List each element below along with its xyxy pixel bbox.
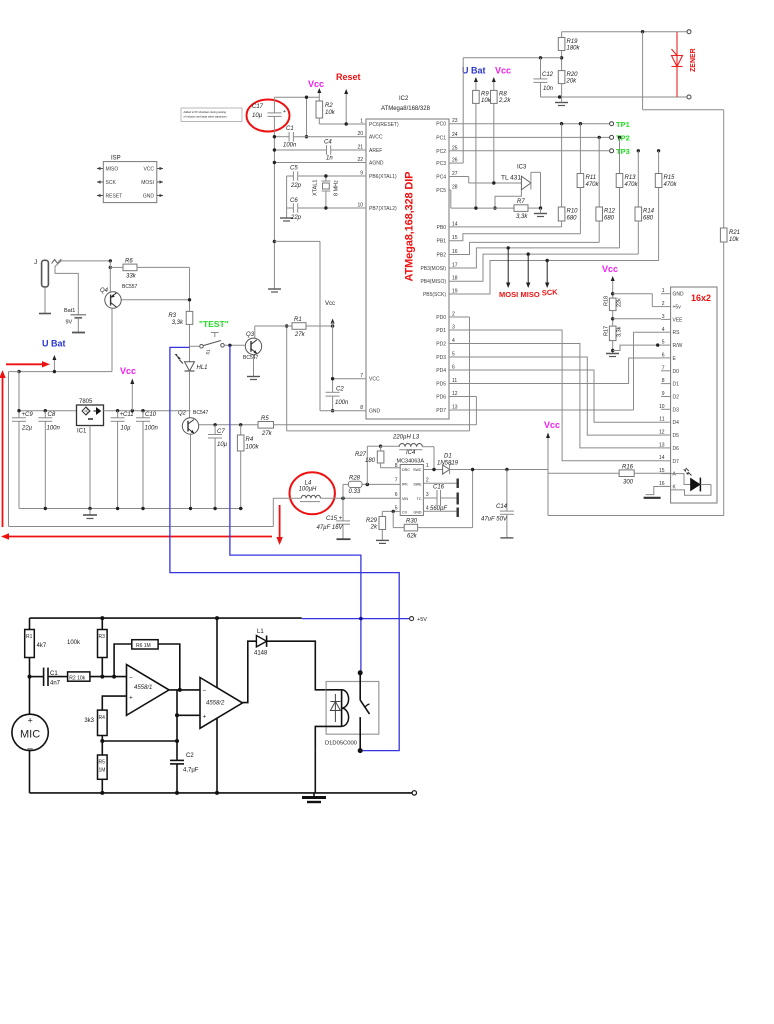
svg-text:22µ: 22µ	[21, 426, 33, 432]
svg-text:CII: CII	[402, 510, 407, 514]
svg-text:R7: R7	[517, 199, 525, 205]
svg-text:100n: 100n	[145, 426, 159, 432]
svg-text:DRC: DRC	[402, 468, 410, 472]
svg-text:680: 680	[643, 216, 654, 222]
svg-text:C6: C6	[290, 198, 298, 204]
svg-text:R2 10k: R2 10k	[69, 675, 85, 681]
svg-text:R18: R18	[604, 296, 610, 306]
svg-text:PD4: PD4	[436, 368, 446, 374]
svg-text:IC4: IC4	[406, 450, 416, 456]
svg-text:+: +	[283, 109, 286, 115]
svg-text:7: 7	[395, 477, 398, 483]
svg-text:ATMega8/168/328: ATMega8/168/328	[381, 106, 431, 112]
svg-text:10µ: 10µ	[252, 113, 263, 119]
svg-text:4k7: 4k7	[37, 643, 47, 649]
svg-text:PD2: PD2	[436, 342, 446, 348]
svg-text:0.33: 0.33	[349, 489, 361, 495]
svg-text:PC6(RESET): PC6(RESET)	[369, 122, 399, 128]
svg-text:100n: 100n	[283, 143, 297, 149]
svg-text:R3: R3	[168, 313, 176, 319]
svg-text:Bat1: Bat1	[64, 308, 75, 314]
svg-text:C17: C17	[252, 104, 264, 110]
svg-text:R/W: R/W	[673, 343, 683, 349]
svg-text:D1: D1	[673, 382, 680, 388]
svg-text:180k: 180k	[567, 46, 581, 52]
svg-text:3,3k: 3,3k	[617, 326, 623, 337]
svg-text:−: −	[129, 674, 133, 681]
svg-text:IPK: IPK	[402, 482, 408, 486]
svg-text:Q3: Q3	[246, 332, 255, 338]
svg-text:AGND: AGND	[369, 161, 384, 167]
svg-text:C15 +: C15 +	[326, 516, 343, 522]
svg-text:R11: R11	[586, 175, 597, 181]
svg-text:GND: GND	[673, 292, 685, 298]
svg-text:RESET: RESET	[106, 194, 123, 200]
svg-text:10µ: 10µ	[121, 426, 132, 432]
svg-text:IC1: IC1	[77, 429, 87, 435]
svg-text:20k: 20k	[566, 79, 578, 85]
svg-text:+: +	[203, 714, 207, 721]
svg-text:62k: 62k	[407, 534, 418, 540]
svg-text:8: 8	[395, 463, 398, 469]
svg-text:VIN: VIN	[402, 497, 408, 501]
svg-text:680: 680	[567, 216, 578, 222]
svg-text:R4: R4	[246, 437, 254, 443]
svg-text:PB5(SCK): PB5(SCK)	[423, 292, 446, 298]
svg-text:of inductor and large value ca: of inductor and large value capacitors	[184, 115, 228, 119]
svg-text:470k: 470k	[625, 182, 639, 188]
svg-text:R1: R1	[294, 317, 302, 323]
svg-text:R8: R8	[499, 92, 507, 98]
svg-text:300: 300	[623, 480, 634, 486]
svg-text:R4: R4	[99, 715, 106, 721]
svg-text:PD1: PD1	[436, 328, 446, 334]
svg-text:+C9: +C9	[22, 412, 34, 418]
svg-text:C4: C4	[324, 140, 332, 146]
svg-text:TP3: TP3	[616, 147, 630, 156]
svg-text:4148: 4148	[254, 651, 268, 657]
svg-text:Q2: Q2	[178, 411, 187, 417]
svg-text:D3: D3	[673, 407, 680, 413]
svg-text:SWE: SWE	[413, 482, 422, 486]
svg-text:ISP: ISP	[111, 156, 121, 162]
svg-text:VEE: VEE	[673, 317, 684, 323]
svg-text:2: 2	[662, 301, 665, 307]
svg-text:BC547: BC547	[243, 355, 259, 361]
svg-text:Vcc: Vcc	[308, 79, 324, 89]
svg-text:VCC: VCC	[143, 167, 154, 173]
svg-text:R30: R30	[406, 519, 418, 525]
svg-text:220µH L3: 220µH L3	[392, 435, 420, 441]
svg-text:D1: D1	[444, 454, 452, 460]
svg-text:R14: R14	[643, 209, 655, 215]
svg-text:4558/2: 4558/2	[206, 701, 225, 707]
svg-text:+C11: +C11	[120, 412, 134, 418]
svg-text:PC1: PC1	[436, 135, 446, 141]
svg-text:Vcc: Vcc	[602, 264, 618, 274]
svg-text:R10: R10	[567, 209, 579, 215]
svg-text:TC: TC	[417, 497, 422, 501]
svg-text:10k: 10k	[729, 237, 740, 243]
svg-text:D6: D6	[673, 446, 680, 452]
svg-text:Added to 5V shutdown during te: Added to 5V shutdown during testing	[184, 110, 227, 114]
svg-text:PB1: PB1	[437, 239, 447, 245]
svg-text:R6 1M: R6 1M	[136, 643, 151, 649]
svg-text:C5: C5	[290, 166, 298, 172]
svg-text:5: 5	[395, 505, 398, 511]
svg-text:PC2: PC2	[436, 149, 446, 155]
svg-text:MIC: MIC	[20, 729, 40, 741]
svg-text:R28: R28	[349, 476, 361, 482]
svg-text:6: 6	[662, 352, 665, 358]
svg-text:PB7(XTAL2): PB7(XTAL2)	[369, 206, 397, 212]
svg-text:1n: 1n	[326, 156, 333, 162]
svg-text:4: 4	[426, 505, 429, 511]
svg-text:4: 4	[662, 327, 665, 333]
svg-text:C2: C2	[336, 387, 344, 393]
svg-text:U Bat: U Bat	[42, 339, 66, 349]
svg-text:PD6: PD6	[436, 395, 446, 401]
svg-text:R21: R21	[729, 230, 740, 236]
svg-text:4n7: 4n7	[50, 681, 61, 687]
svg-text:47uF 50V: 47uF 50V	[481, 517, 508, 523]
svg-text:R9: R9	[481, 92, 489, 98]
svg-text:9V: 9V	[66, 320, 73, 326]
svg-text:+: +	[27, 716, 32, 726]
svg-text:TP1: TP1	[616, 120, 630, 129]
svg-text:C2: C2	[186, 753, 194, 759]
svg-text:+5v: +5v	[673, 305, 682, 311]
svg-text:Vcc: Vcc	[495, 66, 511, 76]
svg-text:3,3k: 3,3k	[516, 214, 528, 220]
svg-text:"TEST": "TEST"	[199, 319, 229, 329]
svg-text:AVCC: AVCC	[369, 135, 383, 141]
svg-text:R17: R17	[604, 326, 610, 336]
svg-text:2,2k: 2,2k	[498, 98, 511, 104]
svg-text:D4: D4	[673, 420, 680, 426]
svg-text:PC5: PC5	[436, 188, 446, 194]
svg-text:100k: 100k	[246, 445, 260, 451]
svg-text:PD3: PD3	[436, 355, 446, 361]
svg-text:TL 431: TL 431	[501, 175, 521, 182]
svg-text:L1: L1	[257, 629, 264, 635]
svg-text:3k3: 3k3	[84, 718, 94, 724]
svg-text:U Bat: U Bat	[462, 66, 486, 76]
svg-text:+: +	[129, 694, 133, 701]
svg-text:100µH: 100µH	[299, 487, 317, 493]
svg-text:4558/1: 4558/1	[134, 685, 152, 691]
svg-text:22k: 22k	[617, 298, 623, 307]
svg-text:VCC: VCC	[369, 377, 380, 383]
svg-text:R3: R3	[99, 634, 106, 640]
svg-text:C12: C12	[542, 72, 554, 78]
svg-text:PC4: PC4	[436, 175, 446, 181]
svg-text:D0: D0	[673, 369, 680, 375]
svg-text:D5: D5	[673, 433, 680, 439]
svg-text:D7: D7	[673, 459, 680, 465]
svg-text:MISO: MISO	[106, 167, 119, 173]
svg-text:PD5: PD5	[436, 382, 446, 388]
svg-text:180: 180	[365, 458, 376, 464]
svg-text:R2: R2	[325, 103, 333, 109]
svg-text:BC547: BC547	[193, 410, 209, 416]
svg-text:MOSI: MOSI	[141, 180, 154, 186]
svg-text:27k: 27k	[294, 332, 306, 338]
svg-text:4,7µF: 4,7µF	[183, 768, 199, 774]
svg-text:R5: R5	[99, 760, 106, 766]
svg-text:R13: R13	[625, 175, 637, 181]
svg-text:Reset: Reset	[336, 72, 361, 82]
svg-text:10µ: 10µ	[217, 442, 228, 448]
svg-text:10k: 10k	[325, 110, 336, 116]
svg-text:C14: C14	[496, 504, 508, 510]
svg-text:IC3: IC3	[517, 165, 527, 171]
svg-text:8: 8	[662, 378, 665, 384]
svg-text:7: 7	[662, 365, 665, 371]
svg-text:Q4: Q4	[100, 288, 109, 294]
svg-text:PC0: PC0	[436, 122, 446, 128]
svg-text:9: 9	[662, 391, 665, 397]
svg-text:GND: GND	[143, 194, 155, 200]
svg-text:GND: GND	[414, 510, 422, 514]
svg-text:C7: C7	[217, 429, 225, 435]
svg-text:27k: 27k	[261, 431, 273, 437]
svg-text:C16: C16	[433, 485, 445, 491]
svg-text:R16: R16	[622, 464, 634, 470]
svg-text:1: 1	[426, 463, 429, 469]
svg-text:680: 680	[604, 216, 615, 222]
svg-text:XTAL1: XTAL1	[313, 180, 319, 196]
svg-text:15: 15	[659, 468, 665, 474]
svg-text:33k: 33k	[126, 274, 137, 280]
svg-text:Vcc: Vcc	[544, 420, 560, 430]
svg-text:100n: 100n	[335, 400, 349, 406]
svg-text:BC557: BC557	[122, 284, 138, 290]
svg-text:PB6(XTAL1): PB6(XTAL1)	[369, 174, 397, 180]
svg-text:AREF: AREF	[369, 148, 382, 154]
svg-text:47µF 16V: 47µF 16V	[317, 525, 344, 531]
svg-text:3,3k: 3,3k	[172, 320, 184, 326]
svg-text:C10: C10	[145, 412, 157, 418]
svg-text:J: J	[34, 259, 37, 266]
svg-text:R29: R29	[366, 518, 378, 524]
svg-text:R15: R15	[664, 175, 676, 181]
svg-text:R19: R19	[567, 39, 579, 45]
svg-text:D1D05C000: D1D05C000	[325, 741, 357, 747]
svg-text:R20: R20	[567, 72, 579, 78]
svg-text:1M: 1M	[99, 768, 106, 774]
svg-text:1N5819: 1N5819	[437, 460, 459, 466]
svg-text:PB2: PB2	[437, 253, 447, 259]
svg-text:3: 3	[662, 314, 665, 320]
svg-text:R5: R5	[261, 416, 269, 422]
svg-text:−: −	[203, 688, 207, 695]
svg-text:5: 5	[662, 340, 665, 346]
svg-text:22p: 22p	[290, 215, 302, 221]
svg-text:RS: RS	[673, 330, 681, 336]
svg-text:22p: 22p	[290, 183, 302, 189]
svg-text:PC3: PC3	[436, 161, 446, 167]
svg-text:2k: 2k	[370, 525, 378, 531]
svg-text:16x2: 16x2	[691, 293, 711, 303]
svg-text:GND: GND	[369, 409, 381, 415]
svg-text:100k: 100k	[67, 640, 81, 646]
svg-text:100n: 100n	[47, 426, 61, 432]
svg-text:10: 10	[659, 404, 665, 410]
svg-text:1: 1	[662, 288, 665, 294]
svg-text:470k: 470k	[586, 182, 600, 188]
svg-text:PD7: PD7	[436, 408, 446, 414]
svg-text:10n: 10n	[543, 86, 554, 92]
svg-text:Vcc: Vcc	[325, 301, 335, 307]
svg-text:R12: R12	[604, 209, 616, 215]
svg-text:SWC: SWC	[413, 468, 422, 472]
svg-text:PB3(MOSI): PB3(MOSI)	[420, 266, 446, 272]
svg-text:MC34063A: MC34063A	[397, 458, 425, 464]
svg-text:2: 2	[426, 477, 429, 483]
svg-text:C8: C8	[48, 412, 56, 418]
svg-text:SCK: SCK	[106, 180, 117, 186]
svg-text:PB0: PB0	[437, 225, 447, 231]
svg-text:6: 6	[395, 492, 398, 498]
svg-text:D2: D2	[673, 395, 680, 401]
svg-text:PD0: PD0	[436, 315, 446, 321]
svg-text:Vcc: Vcc	[120, 366, 136, 376]
svg-text:28: 28	[452, 185, 458, 191]
svg-text:8 MHz: 8 MHz	[334, 180, 340, 196]
svg-text:C1: C1	[286, 126, 294, 132]
svg-text:HL1: HL1	[197, 365, 208, 371]
svg-text:PB4(MISO): PB4(MISO)	[420, 279, 446, 285]
svg-text:SCK: SCK	[542, 287, 559, 297]
svg-text:ZENER: ZENER	[690, 48, 697, 72]
svg-text:470k: 470k	[664, 182, 678, 188]
svg-text:+5V: +5V	[417, 617, 427, 623]
svg-text:3: 3	[426, 492, 429, 498]
svg-text:7805: 7805	[79, 399, 93, 405]
svg-text:IC2: IC2	[399, 96, 409, 102]
svg-text:ATMega8,168,328 DIP: ATMega8,168,328 DIP	[404, 172, 416, 282]
svg-text:MISO: MISO	[521, 290, 540, 299]
svg-text:R6: R6	[125, 259, 133, 265]
svg-text:R1: R1	[26, 634, 33, 640]
svg-text:MOSI: MOSI	[499, 290, 518, 299]
